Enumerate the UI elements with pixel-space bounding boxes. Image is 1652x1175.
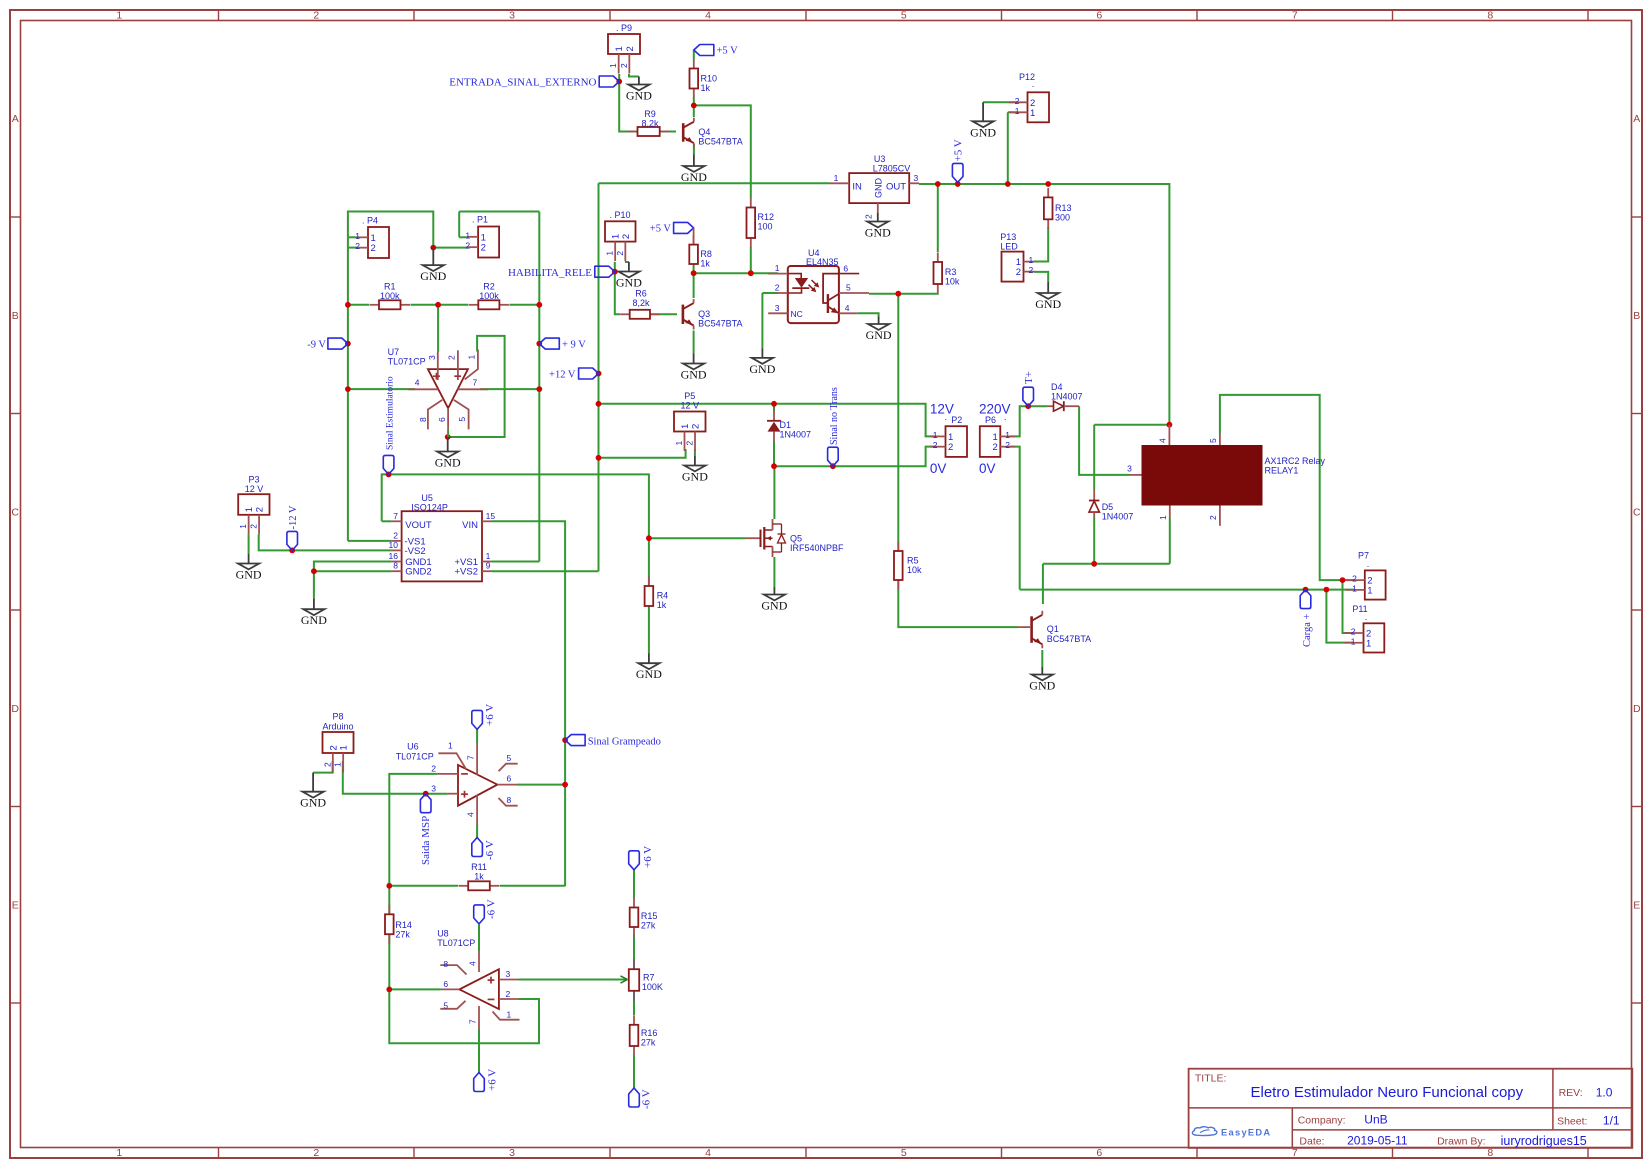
svg-text:EasyEDA: EasyEDA [1221, 1127, 1271, 1137]
title block outline [1189, 1069, 1633, 1148]
resistor R1 [370, 282, 411, 310]
relay pin stubs and numbers [1127, 425, 1220, 526]
svg-text:Carga +: Carga + [1302, 613, 1313, 647]
svg-text:5: 5 [507, 753, 512, 763]
svg-text:+VS2: +VS2 [454, 567, 478, 578]
svg-text:+6 V: +6 V [484, 704, 496, 726]
svg-text:1: 1 [608, 63, 618, 68]
svg-text:TL071CP: TL071CP [437, 938, 475, 948]
svg-text:7: 7 [468, 1019, 478, 1024]
net flag +6 V above U6 [472, 710, 483, 729]
svg-text:ISO124P: ISO124P [411, 502, 448, 512]
svg-text:2: 2 [1208, 515, 1218, 520]
svg-text:.: . [1367, 559, 1370, 569]
svg-text:U3: U3 [874, 154, 886, 164]
wire R6 to Q3 base [650, 313, 677, 315]
wire R11 left [389, 885, 458, 887]
svg-text:8: 8 [443, 959, 448, 969]
resistor R3 [934, 253, 960, 294]
svg-text:R10: R10 [701, 74, 718, 84]
wire P1 pin1 to right vertical [459, 236, 468, 238]
svg-text:+5 V: +5 V [717, 46, 739, 57]
svg-text:1: 1 [775, 263, 780, 273]
svg-text:7: 7 [1292, 10, 1298, 22]
svg-text:100k: 100k [479, 291, 499, 301]
wire R4 bottom to GND [648, 606, 650, 654]
svg-text:4: 4 [705, 1147, 711, 1159]
svg-text:D4: D4 [1051, 382, 1063, 392]
svg-text:2: 2 [506, 989, 511, 999]
wire R15 bottom to R7 terminal1 [633, 935, 635, 959]
wire P4/P1 top link [348, 212, 433, 248]
connector P2 [931, 426, 968, 457]
svg-text:2: 2 [481, 243, 486, 254]
svg-text:Sheet:: Sheet: [1557, 1116, 1587, 1128]
svg-text:2019-05-11: 2019-05-11 [1347, 1133, 1408, 1147]
ground at U3 pin2 [865, 213, 891, 240]
svg-text:1: 1 [238, 524, 248, 529]
svg-text:+5 V: +5 V [650, 224, 672, 235]
svg-text:REV:: REV: [1559, 1087, 1583, 1099]
wire R7 to R16 [633, 1002, 635, 1016]
svg-text:7: 7 [1292, 1147, 1298, 1159]
connector P1 [465, 227, 499, 258]
svg-text:UnB: UnB [1364, 1112, 1387, 1126]
svg-text:2: 2 [255, 507, 266, 512]
svg-text:-6 V: -6 V [485, 899, 497, 919]
svg-text:R8: R8 [700, 249, 712, 259]
svg-text:8: 8 [1487, 1147, 1493, 1159]
svg-text:R6: R6 [635, 289, 647, 299]
svg-text:2: 2 [933, 440, 938, 450]
wire U3 OUT +5V rail to relay pin 4 column [919, 184, 1169, 425]
svg-text:5: 5 [901, 1147, 907, 1159]
svg-text:1: 1 [1351, 636, 1356, 646]
ground at R4 [636, 654, 662, 682]
svg-text:GND: GND [616, 276, 642, 290]
wire P4 pins to left vertical [348, 236, 358, 238]
svg-text:2: 2 [371, 243, 376, 254]
svg-text:6: 6 [843, 264, 848, 274]
wire VOUT riser to Sinal Estimulatorio node and R4 [382, 474, 649, 586]
wire long +12V input rail to U3 IN [599, 182, 830, 184]
connector P6 [980, 426, 1016, 457]
wire Q1 emitter to GND [1041, 650, 1043, 667]
resistor R2 [469, 282, 509, 310]
svg-text:5: 5 [457, 417, 467, 422]
net label ENTRADA_SINAL_EXTERNO [599, 76, 619, 87]
svg-text:8: 8 [418, 417, 428, 422]
wire +6V flag to R15 [633, 870, 635, 898]
svg-text:3: 3 [427, 355, 437, 360]
resistor R10 [690, 60, 718, 98]
wire U8 feedback loop pin6 to pin2 [389, 989, 539, 1043]
svg-text:1: 1 [467, 355, 477, 360]
svg-text:1N4007: 1N4007 [780, 430, 812, 440]
svg-text:100k: 100k [380, 291, 400, 301]
isolation amplifier U5 ISO124P [389, 493, 496, 581]
svg-text:8: 8 [507, 795, 512, 805]
svg-text:1: 1 [933, 430, 938, 440]
svg-text:. P4: . P4 [362, 216, 378, 226]
svg-text:GND: GND [236, 568, 262, 582]
svg-text:1N4007: 1N4007 [1051, 392, 1083, 402]
svg-text:-9 V: -9 V [307, 340, 326, 351]
connector P5 [674, 412, 706, 452]
connector P8 [322, 732, 353, 773]
svg-text:E: E [1633, 899, 1640, 911]
svg-text:GND: GND [874, 178, 884, 199]
svg-text:E: E [12, 899, 19, 911]
net flag -6 V below R16 [629, 1088, 640, 1107]
ground at Q4 emitter [681, 155, 707, 185]
svg-text:-12 V: -12 V [288, 505, 299, 529]
wire U4 pin4 to GND [858, 313, 879, 316]
svg-text:Arduino: Arduino [322, 722, 353, 732]
svg-text:Company:: Company: [1298, 1114, 1346, 1126]
svg-text:1: 1 [507, 1009, 512, 1019]
svg-text:GND: GND [761, 599, 787, 613]
svg-text:R3: R3 [945, 267, 957, 277]
svg-text:. P10: . P10 [609, 210, 630, 220]
wire R9 to Q4 base [660, 131, 676, 133]
svg-text:1: 1 [339, 745, 350, 750]
wire Q3 collector to junction [693, 273, 695, 298]
resistor R13 [1044, 188, 1072, 229]
wire P5 pin2 to GND [694, 449, 696, 456]
svg-text:16: 16 [389, 551, 399, 561]
svg-text:7: 7 [393, 511, 398, 521]
svg-text:2: 2 [615, 251, 625, 256]
svg-text:1: 1 [605, 251, 615, 256]
svg-text:1: 1 [1030, 108, 1035, 119]
resistor R6 [620, 289, 659, 319]
diode D4 1N4007 [1047, 382, 1083, 411]
svg-text:10k: 10k [907, 565, 922, 575]
wire U8 pin6 to node [389, 988, 441, 990]
svg-text:3: 3 [509, 1147, 515, 1159]
svg-text:Q5: Q5 [790, 534, 802, 544]
wire P12 pin1 down to +5V rail [1007, 112, 1009, 184]
svg-text:5: 5 [1208, 438, 1218, 443]
svg-text:15: 15 [486, 511, 496, 521]
diode D1 1N4007 [767, 412, 811, 441]
svg-text:2: 2 [1005, 440, 1010, 450]
net flag + 9 V [539, 338, 559, 349]
wire Carga rail junction down to P11 pin1 [1326, 590, 1353, 643]
title block texts [1195, 1073, 1620, 1148]
svg-text:1/1: 1/1 [1603, 1114, 1620, 1128]
ground at Q3 emitter [681, 354, 707, 382]
svg-text:GND: GND [866, 328, 892, 342]
wire relay pin1 rail [1043, 563, 1170, 565]
svg-text:.: . [1032, 79, 1035, 89]
svg-text:D: D [11, 703, 19, 715]
svg-text:1: 1 [116, 10, 122, 22]
svg-text:TL071CP: TL071CP [388, 357, 426, 367]
svg-text:A: A [12, 113, 19, 125]
wire Q1 base lead [1018, 626, 1030, 628]
net flag -6 V above U8 [474, 905, 485, 924]
svg-text:1k: 1k [474, 872, 484, 882]
frame row ticks and letters [10, 113, 1642, 1003]
svg-text:R16: R16 [641, 1028, 658, 1038]
transistor Q4 [683, 118, 743, 148]
svg-text:2: 2 [1015, 96, 1020, 106]
svg-text:AX1RC2 Relay: AX1RC2 Relay [1265, 456, 1326, 466]
svg-text:2: 2 [1352, 574, 1357, 584]
wire Q4 emitter to GND [693, 144, 695, 155]
wire relay pin3 node to D5 and pin4 link [1093, 425, 1095, 489]
svg-text:1.0: 1.0 [1596, 1085, 1613, 1099]
svg-text:BC547BTA: BC547BTA [698, 137, 742, 147]
svg-text:4: 4 [705, 10, 711, 22]
svg-text:Q4: Q4 [698, 127, 710, 137]
svg-text:U6: U6 [407, 742, 419, 752]
wire +5V flag to R8 [693, 228, 695, 245]
wire Q5 source to GND [773, 557, 775, 587]
net flag +12 V [579, 368, 599, 379]
wire R11 right [500, 885, 565, 887]
svg-text:100: 100 [758, 222, 773, 232]
svg-text:1: 1 [1367, 585, 1372, 596]
svg-text:0V: 0V [979, 461, 996, 476]
svg-text:U7: U7 [388, 347, 400, 357]
svg-text:GND: GND [970, 125, 996, 139]
wire rail down to Q1 collector [1042, 564, 1044, 604]
ground at U7 pin6 [435, 437, 461, 470]
net flag +5 V at R8 [674, 222, 694, 233]
svg-text:Q3: Q3 [698, 309, 710, 319]
svg-text:B: B [12, 310, 19, 322]
svg-text:2: 2 [948, 442, 953, 453]
resistor R8 [689, 235, 712, 269]
net label HABILITA_RELE [595, 266, 615, 277]
svg-text:B: B [1633, 310, 1640, 322]
svg-text:1: 1 [1366, 638, 1371, 649]
svg-text:IN: IN [852, 182, 862, 193]
svg-text:3: 3 [509, 10, 515, 22]
resistor R15 [630, 898, 658, 937]
wire U8 pin4 to -6V flag [478, 925, 480, 952]
net flag +6 V below U8 [474, 1073, 485, 1092]
svg-text:4: 4 [468, 961, 478, 966]
op-amp U8 TL071CP mirrored [437, 929, 519, 1030]
wire R5 bottom to Q1 base [898, 580, 1018, 627]
wire P3 pin1 to GND [248, 534, 250, 554]
svg-text:R1: R1 [384, 282, 396, 292]
svg-text:. P9: . P9 [616, 23, 632, 33]
svg-text:+ 9 V: + 9 V [562, 340, 586, 351]
wire P9 pin1 to R9 (ENTRADA net) [619, 74, 637, 132]
wire U4 pin2 to GND [762, 292, 778, 294]
svg-text:2: 2 [447, 355, 457, 360]
wire P10 pin1 down to HABILITA junction [614, 262, 616, 272]
svg-text:2: 2 [993, 442, 998, 453]
svg-text:-VS2: -VS2 [405, 546, 426, 557]
connector P11 [1345, 623, 1385, 652]
svg-text:Sinal Grampeado: Sinal Grampeado [588, 736, 661, 747]
svg-text:T+: T+ [1023, 371, 1035, 384]
svg-text:8: 8 [393, 561, 398, 571]
wire +5V flag to R10 [693, 50, 695, 60]
svg-text:ENTRADA_SINAL_EXTERNO: ENTRADA_SINAL_EXTERNO [449, 77, 596, 89]
resistor R14 [385, 905, 412, 944]
svg-text:10k: 10k [945, 277, 960, 287]
svg-text:GND: GND [681, 368, 707, 382]
wire P12 pin2 to GND [983, 101, 1017, 103]
svg-text:2: 2 [864, 214, 874, 219]
svg-text:VIN: VIN [462, 520, 478, 531]
wire D1 top to 12V rail [773, 404, 775, 412]
connector P12 [1009, 92, 1049, 122]
voltage regulator U3 L7805CV [830, 154, 920, 219]
svg-text:1: 1 [834, 173, 839, 183]
svg-text:BC547BTA: BC547BTA [698, 319, 742, 329]
ground at P10 pin2 [616, 262, 642, 290]
net label Saida MSP vertical [420, 794, 431, 813]
svg-text:Sinal Estimulatorio: Sinal Estimulatorio [386, 376, 396, 450]
svg-text:2: 2 [313, 1147, 319, 1159]
net flag +5 V vertical at U3 output [952, 163, 963, 182]
svg-text:+6 V: +6 V [642, 846, 654, 868]
potentiometer R7 100K [629, 969, 663, 992]
net label Sinal Estimulatorio vertical [383, 455, 394, 474]
svg-text:GND: GND [682, 470, 708, 484]
svg-text:2: 2 [322, 762, 332, 767]
svg-text:GND: GND [749, 362, 775, 376]
wire R14 bottom to U8 pin6 node [388, 935, 390, 990]
wire U6 pin2 loop to R11 [389, 774, 437, 886]
wire R3 bottom to U4 pin5 node [898, 292, 938, 295]
svg-text:P13: P13 [1000, 232, 1016, 242]
wire relay pin5 up and over to P7 pin2 [1220, 395, 1355, 580]
svg-text:Q1: Q1 [1047, 624, 1059, 634]
svg-text:5: 5 [901, 10, 907, 22]
connector P13 [1002, 252, 1035, 282]
svg-text:P2: P2 [951, 415, 962, 425]
mosfet Q5 IRF540NPBF [746, 519, 844, 557]
svg-text:GND: GND [626, 89, 652, 103]
transistor Q3 [683, 299, 743, 329]
wire junction down to U7 pin3 [437, 305, 439, 352]
ground at P9 pin2 [626, 77, 652, 103]
wire rail to R3 top [937, 184, 939, 252]
net label Sinal no Trans vertical [828, 447, 839, 466]
svg-text:1: 1 [116, 1147, 122, 1159]
svg-text:3: 3 [1127, 464, 1132, 474]
wire U7 output pin6 feedback loop to pin1 [448, 336, 505, 437]
connector P4 [355, 227, 389, 258]
svg-text:NC: NC [791, 309, 803, 319]
svg-text:27k: 27k [641, 921, 656, 931]
svg-text:P8: P8 [332, 712, 343, 722]
svg-text:1: 1 [674, 441, 684, 446]
wire D5 bottom to relay pin1 rail [1093, 517, 1095, 564]
wire U6 pin4 to -6V [476, 824, 478, 838]
wire P10 pin2 to GND [625, 261, 629, 263]
svg-text:LED: LED [1000, 242, 1018, 252]
svg-text:1: 1 [614, 46, 625, 51]
ground at Q5 source [761, 587, 787, 613]
svg-text:3: 3 [431, 783, 436, 793]
connector P10 [605, 221, 636, 261]
wire D4 out down to relay pin3 [1079, 406, 1130, 475]
svg-text:9: 9 [486, 561, 491, 571]
svg-text:GND: GND [300, 796, 326, 810]
wire R13 bottom to P13 pin1 [1034, 227, 1048, 262]
wire Q5 drain up to 0V rail [773, 466, 775, 519]
svg-text:2: 2 [619, 63, 629, 68]
ground at P4/P1 junction [420, 248, 446, 284]
svg-text:BC547BTA: BC547BTA [1047, 634, 1091, 644]
wire R8 bottom to junction [693, 264, 695, 273]
svg-text:1: 1 [1352, 583, 1357, 593]
svg-text:2: 2 [355, 241, 360, 251]
svg-text:Saida MSP: Saida MSP [420, 816, 432, 865]
connector P7 [1346, 570, 1386, 599]
svg-text:7: 7 [466, 755, 476, 760]
resistor R16 [630, 1015, 658, 1055]
wire VIN to Sinal Grampeado column [492, 521, 565, 886]
wire U6 pin6 output to Sinal Grampeado column [517, 784, 565, 786]
ground at P13 pin2 [1035, 282, 1061, 311]
svg-text:R7: R7 [643, 973, 655, 983]
svg-text:4: 4 [1158, 438, 1168, 443]
svg-text:2: 2 [621, 234, 632, 239]
svg-text:HABILITA_RELE: HABILITA_RELE [508, 267, 592, 279]
svg-text:0V: 0V [930, 461, 947, 476]
wire U8 pin7 to +6V flag [478, 1029, 480, 1073]
svg-text:100K: 100K [642, 982, 663, 992]
wire -VS1 from left vertical [348, 540, 392, 542]
svg-text:1: 1 [680, 424, 691, 429]
svg-text:C: C [11, 506, 19, 518]
svg-text:C: C [1633, 506, 1641, 518]
svg-text:.: . [1365, 612, 1368, 622]
wire U7 pin4 from left vertical [348, 388, 415, 390]
wire P6 pin2 down to Carga rail [1010, 447, 1020, 590]
svg-text:R13: R13 [1055, 203, 1072, 213]
ground at U4 pin2 [749, 348, 775, 376]
svg-text:L7805CV: L7805CV [873, 164, 911, 174]
relay RELAY1 AX1RC2 body [1142, 445, 1263, 506]
svg-text:4: 4 [466, 812, 476, 817]
svg-text:1k: 1k [657, 600, 667, 610]
svg-text:Sinal no Trans: Sinal no Trans [829, 387, 840, 445]
svg-text:6: 6 [1096, 1147, 1102, 1159]
net flag -9 V [328, 338, 348, 349]
svg-text:6: 6 [437, 417, 447, 422]
wire Q3 emitter to GND [693, 331, 695, 354]
wire U4 pin5 to node [869, 293, 898, 295]
svg-text:Drawn By:: Drawn By: [1437, 1136, 1485, 1148]
svg-text:1k: 1k [701, 83, 711, 93]
svg-text:2: 2 [249, 524, 259, 529]
svg-text:IRF540NPBF: IRF540NPBF [790, 543, 844, 553]
wire P3 pin2 to -VS2 rail [259, 534, 392, 550]
wire 0V rail from D1 to P2 pin2 [773, 441, 775, 466]
diode D5 1N4007 [1089, 489, 1133, 522]
svg-text:1: 1 [1029, 255, 1034, 265]
wire left vertical +12V net down to U5 +VS2 [598, 183, 600, 571]
svg-text:iuryrodrigues15: iuryrodrigues15 [1501, 1134, 1587, 1148]
net label Sinal Grampeado [565, 735, 585, 746]
wire R12 bottom to R8 junction [750, 247, 752, 273]
svg-text:1: 1 [355, 231, 360, 241]
svg-text:2: 2 [465, 241, 470, 251]
wire junction to P1 pin2 [433, 247, 468, 249]
